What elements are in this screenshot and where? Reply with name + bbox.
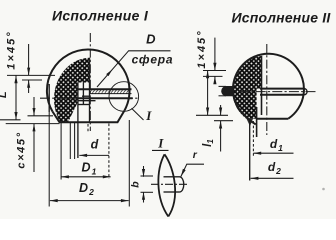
svg-text:D: D (79, 181, 88, 195)
svg-text:1: 1 (92, 167, 97, 177)
svg-text:1: 1 (278, 143, 283, 153)
svg-text:c×45°: c×45° (16, 131, 28, 168)
svg-text:I: I (145, 108, 152, 123)
svg-text:2: 2 (88, 187, 94, 197)
svg-text:Исполнение I: Исполнение I (52, 8, 149, 24)
svg-text:I: I (157, 136, 164, 151)
svg-text:1×45°: 1×45° (6, 30, 18, 69)
svg-text:2: 2 (275, 166, 281, 176)
svg-text:Исполнение II: Исполнение II (232, 10, 332, 26)
svg-text:d: d (268, 160, 276, 174)
svg-text:b: b (130, 181, 142, 188)
svg-text:сфера: сфера (132, 53, 174, 67)
svg-text:d: d (270, 137, 278, 151)
svg-text:D: D (146, 32, 156, 47)
svg-text:D: D (81, 161, 90, 175)
svg-text:d: d (91, 138, 99, 152)
svg-text:L: L (0, 91, 9, 98)
svg-text:1×45°: 1×45° (196, 29, 208, 68)
